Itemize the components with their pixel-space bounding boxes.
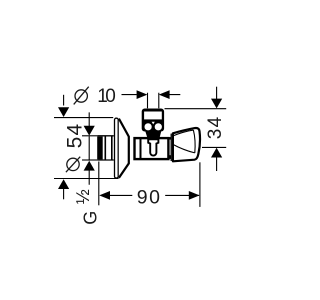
thread bottom edge extension (82, 159, 97, 161)
rosette bell cone (119, 119, 129, 178)
Ø54 bottom reference line (54, 178, 119, 180)
G1/2 dimension line (88, 112, 90, 184)
handle inner face line (193, 130, 195, 153)
dimension label "Ø 10" (74, 86, 116, 107)
dimension label "Ø 54" (rotated) (64, 123, 87, 173)
Ø10 extension lines (148, 93, 159, 109)
G1/2 bottom arrow (84, 161, 95, 171)
outlet left circle (145, 123, 152, 130)
valve body (135, 138, 169, 159)
outlet neck (145, 131, 161, 138)
collar line (111, 136, 113, 160)
outlet right circle (155, 123, 162, 130)
svg-text:34: 34 (205, 115, 226, 139)
Ø54 bottom arrow (58, 179, 69, 189)
Ø54 top reference line (54, 117, 113, 119)
Ø10 dimension line (122, 94, 181, 96)
label "G 1/2" (rotated) (73, 189, 101, 225)
thread top edge extension (82, 135, 97, 137)
90 right extension line (199, 162, 201, 207)
90 right arrow (189, 191, 200, 200)
rosette disc (115, 118, 119, 178)
svg-text:0: 0 (105, 86, 116, 107)
34 bottom arrow (211, 148, 222, 158)
90 left arrow (99, 191, 110, 200)
34 dimension line top (216, 87, 218, 100)
Ø10 right arrow (159, 90, 170, 99)
svg-text:90: 90 (137, 187, 162, 209)
handle sweep arc (172, 144, 194, 153)
valve stem (148, 139, 158, 155)
outlet block (142, 109, 164, 132)
thread groove line (104, 136, 106, 160)
Ø54 dimension line bottom (63, 189, 65, 200)
Ø10 left arrow (137, 90, 148, 99)
34 top arrow (211, 99, 222, 109)
outlet white band (144, 112, 162, 120)
90 left extension line (98, 162, 100, 206)
Ø54 dimension line top (63, 95, 65, 106)
handle (173, 128, 200, 161)
34 top reference line (165, 108, 227, 110)
34 dimension line bottom (216, 157, 218, 171)
outlet notch (152, 122, 155, 125)
thread outline (97, 136, 114, 160)
svg-text:½: ½ (73, 189, 93, 204)
svg-text:G: G (80, 211, 100, 225)
90 dimension line (109, 194, 199, 196)
handle face thick line (170, 134, 172, 161)
body-handle top stub (168, 137, 171, 140)
body-handle bottom stub (168, 155, 171, 159)
G1/2 top arrow (84, 126, 95, 136)
Ø54 top arrow (58, 107, 69, 117)
handle top bevel arc (172, 130, 193, 136)
34 bottom reference line (202, 146, 226, 148)
G1/2 thread block (97, 137, 103, 160)
body inner left line (140, 139, 142, 160)
